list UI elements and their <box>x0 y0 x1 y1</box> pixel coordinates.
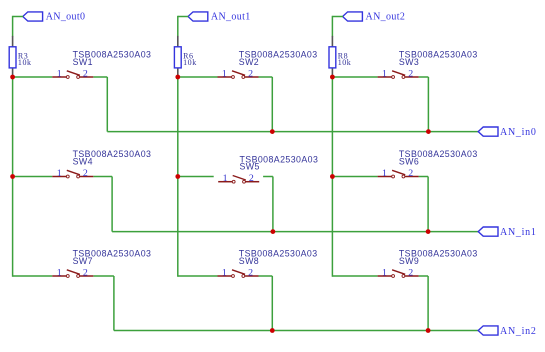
wire SW3 output stub <box>419 76 429 78</box>
SW7 pin 1 <box>57 268 62 279</box>
svg-text:SW2: SW2 <box>239 57 259 67</box>
svg-text:10k: 10k <box>183 58 197 67</box>
svg-text:SW1: SW1 <box>73 57 93 67</box>
wire net AN_in1 bus <box>112 231 479 233</box>
switch SW8 TSB008A2530A03 <box>218 270 259 278</box>
svg-text:SW5: SW5 <box>240 162 260 172</box>
SW4 pin 2 <box>83 168 88 179</box>
wire SW2 output stub <box>259 76 273 78</box>
switch SW4 TSB008A2530A03 <box>52 170 93 178</box>
label R6 refdes <box>183 52 193 61</box>
label SW3 refdes <box>399 57 419 67</box>
wire column 3 vertical <box>331 77 333 277</box>
label SW7 refdes <box>73 256 93 266</box>
wire SW3 output drop <box>427 77 429 132</box>
svg-text:AN_out0: AN_out0 <box>46 11 86 22</box>
wire SW1 output stub <box>93 76 107 78</box>
SW5 pin 2 <box>249 173 254 184</box>
wire column 2 vertical <box>177 77 179 277</box>
port AN_out0 <box>23 11 86 22</box>
wire SW9 input <box>332 275 377 277</box>
switch SW9 TSB008A2530A03 <box>378 270 419 278</box>
wire SW9 output drop <box>427 276 429 331</box>
wire AN_out2 stub <box>332 16 343 18</box>
label SW3 value TSB008A2530A03 <box>399 50 478 60</box>
switch SW1 TSB008A2530A03 <box>52 71 93 79</box>
label SW1 value TSB008A2530A03 <box>73 50 152 60</box>
resistor R6 10k <box>174 36 181 76</box>
wire SW5 input <box>178 176 214 178</box>
junction node col1 row2 <box>10 174 15 179</box>
svg-text:2: 2 <box>83 69 88 80</box>
label SW6 value TSB008A2530A03 <box>399 149 478 159</box>
port AN_in1 <box>478 227 536 238</box>
wire SW4 output drop <box>111 177 113 232</box>
wire SW5 output stub <box>263 176 273 178</box>
label R6 value 10k <box>183 58 197 67</box>
wire SW3 input <box>332 76 377 78</box>
svg-text:1: 1 <box>382 168 387 179</box>
junction node AN_in0 mid <box>270 129 275 134</box>
label SW2 refdes <box>239 57 259 67</box>
svg-text:SW3: SW3 <box>399 57 419 67</box>
svg-text:2: 2 <box>248 268 253 279</box>
svg-text:AN_out1: AN_out1 <box>211 11 251 22</box>
svg-text:2: 2 <box>83 168 88 179</box>
svg-text:2: 2 <box>248 69 253 80</box>
port AN_out1 <box>188 11 251 22</box>
label SW1 refdes <box>73 57 93 67</box>
label R3 value 10k <box>18 58 32 67</box>
label R3 refdes <box>18 52 28 61</box>
junction node col3 row2 <box>330 174 335 179</box>
wire SW7 input <box>13 275 53 277</box>
junction node col3 row1 <box>330 75 335 80</box>
svg-text:2: 2 <box>408 268 413 279</box>
svg-text:1: 1 <box>222 69 227 80</box>
wire SW6 input <box>332 176 377 178</box>
wire SW4 output stub <box>93 176 112 178</box>
svg-text:AN_out2: AN_out2 <box>366 11 406 22</box>
svg-text:1: 1 <box>222 268 227 279</box>
wire SW6 output stub <box>419 176 429 178</box>
label SW5 refdes <box>240 162 260 172</box>
SW8 pin 1 <box>222 268 227 279</box>
label SW7 value TSB008A2530A03 <box>73 249 152 259</box>
wire column 1 vertical <box>12 77 14 277</box>
port AN_in2 <box>478 326 536 337</box>
wire AN_out1 stub <box>178 16 189 18</box>
wire SW7 output stub <box>93 275 114 277</box>
svg-text:1: 1 <box>223 173 228 184</box>
wire AN_out0 column top <box>12 16 14 37</box>
svg-text:10k: 10k <box>18 58 32 67</box>
svg-text:SW7: SW7 <box>73 256 93 266</box>
label SW2 value TSB008A2530A03 <box>239 50 318 60</box>
wire SW4 input <box>13 176 53 178</box>
SW4 pin 1 <box>57 168 62 179</box>
wire AN_out1 column top <box>177 16 179 37</box>
label R8 value 10k <box>338 58 352 67</box>
label SW4 value TSB008A2530A03 <box>73 149 152 159</box>
resistor R3 10k <box>9 36 16 76</box>
wire SW1 input <box>13 76 53 78</box>
junction node col2 row2 <box>175 174 180 179</box>
svg-text:2: 2 <box>249 173 254 184</box>
SW2 pin 2 <box>248 69 253 80</box>
switch SW3 TSB008A2530A03 <box>378 71 419 79</box>
svg-text:2: 2 <box>408 69 413 80</box>
label SW8 value TSB008A2530A03 <box>239 249 318 259</box>
wire SW8 input <box>178 275 218 277</box>
junction node col2 row1 <box>175 75 180 80</box>
SW9 pin 1 <box>382 268 387 279</box>
svg-text:SW4: SW4 <box>73 157 93 167</box>
SW3 pin 1 <box>382 69 387 80</box>
junction node AN_in2 right <box>426 328 431 333</box>
SW1 pin 1 <box>57 69 62 80</box>
SW2 pin 1 <box>222 69 227 80</box>
svg-text:1: 1 <box>57 168 62 179</box>
wire SW8 output stub <box>259 275 273 277</box>
wire SW2 output drop <box>271 77 273 132</box>
wire SW1 output drop <box>106 77 108 132</box>
svg-text:AN_in2: AN_in2 <box>500 326 537 337</box>
port AN_in0 <box>478 127 536 138</box>
svg-text:1: 1 <box>57 69 62 80</box>
SW9 pin 2 <box>408 268 413 279</box>
svg-text:AN_in1: AN_in1 <box>500 227 537 238</box>
port AN_out2 <box>343 11 406 22</box>
SW6 pin 1 <box>382 168 387 179</box>
label SW8 refdes <box>239 256 259 266</box>
label SW6 refdes <box>399 157 419 167</box>
junction node AN_in1 right <box>426 229 431 234</box>
switch SW7 TSB008A2530A03 <box>52 270 93 278</box>
resistor R8 10k <box>329 36 336 76</box>
wire SW8 output drop <box>271 276 273 331</box>
SW7 pin 2 <box>83 268 88 279</box>
wire SW5 output drop <box>272 177 274 232</box>
svg-text:1: 1 <box>57 268 62 279</box>
wire SW6 output drop <box>427 177 429 232</box>
svg-text:1: 1 <box>382 268 387 279</box>
switch SW2 TSB008A2530A03 <box>218 71 259 79</box>
svg-text:AN_in0: AN_in0 <box>500 127 537 138</box>
wire SW2 input <box>178 76 218 78</box>
wire SW7 output drop <box>113 276 115 331</box>
SW5 pin 1 <box>223 173 228 184</box>
svg-text:SW8: SW8 <box>239 256 259 266</box>
wire AN_out2 column top <box>331 16 333 37</box>
SW1 pin 2 <box>83 69 88 80</box>
SW6 pin 2 <box>408 168 413 179</box>
junction node AN_in0 right <box>426 129 431 134</box>
wire SW9 output stub <box>419 275 429 277</box>
svg-text:SW6: SW6 <box>399 157 419 167</box>
SW8 pin 2 <box>248 268 253 279</box>
switch SW5 TSB008A2530A03 <box>218 176 259 184</box>
wire net AN_in2 bus <box>114 330 479 332</box>
wire net AN_in0 bus <box>107 131 478 133</box>
label SW5 value TSB008A2530A03 <box>240 154 319 164</box>
junction node col1 row1 <box>10 75 15 80</box>
junction node AN_in2 mid <box>270 328 275 333</box>
svg-text:10k: 10k <box>338 58 352 67</box>
label SW9 value TSB008A2530A03 <box>399 249 478 259</box>
label R8 refdes <box>338 52 348 61</box>
svg-text:2: 2 <box>408 168 413 179</box>
svg-text:2: 2 <box>83 268 88 279</box>
wire AN_out0 stub <box>13 16 24 18</box>
svg-text:1: 1 <box>382 69 387 80</box>
label SW4 refdes <box>73 157 93 167</box>
label SW9 refdes <box>399 256 419 266</box>
SW3 pin 2 <box>408 69 413 80</box>
junction node AN_in1 mid <box>271 229 276 234</box>
switch SW6 TSB008A2530A03 <box>378 170 419 178</box>
svg-text:SW9: SW9 <box>399 256 419 266</box>
